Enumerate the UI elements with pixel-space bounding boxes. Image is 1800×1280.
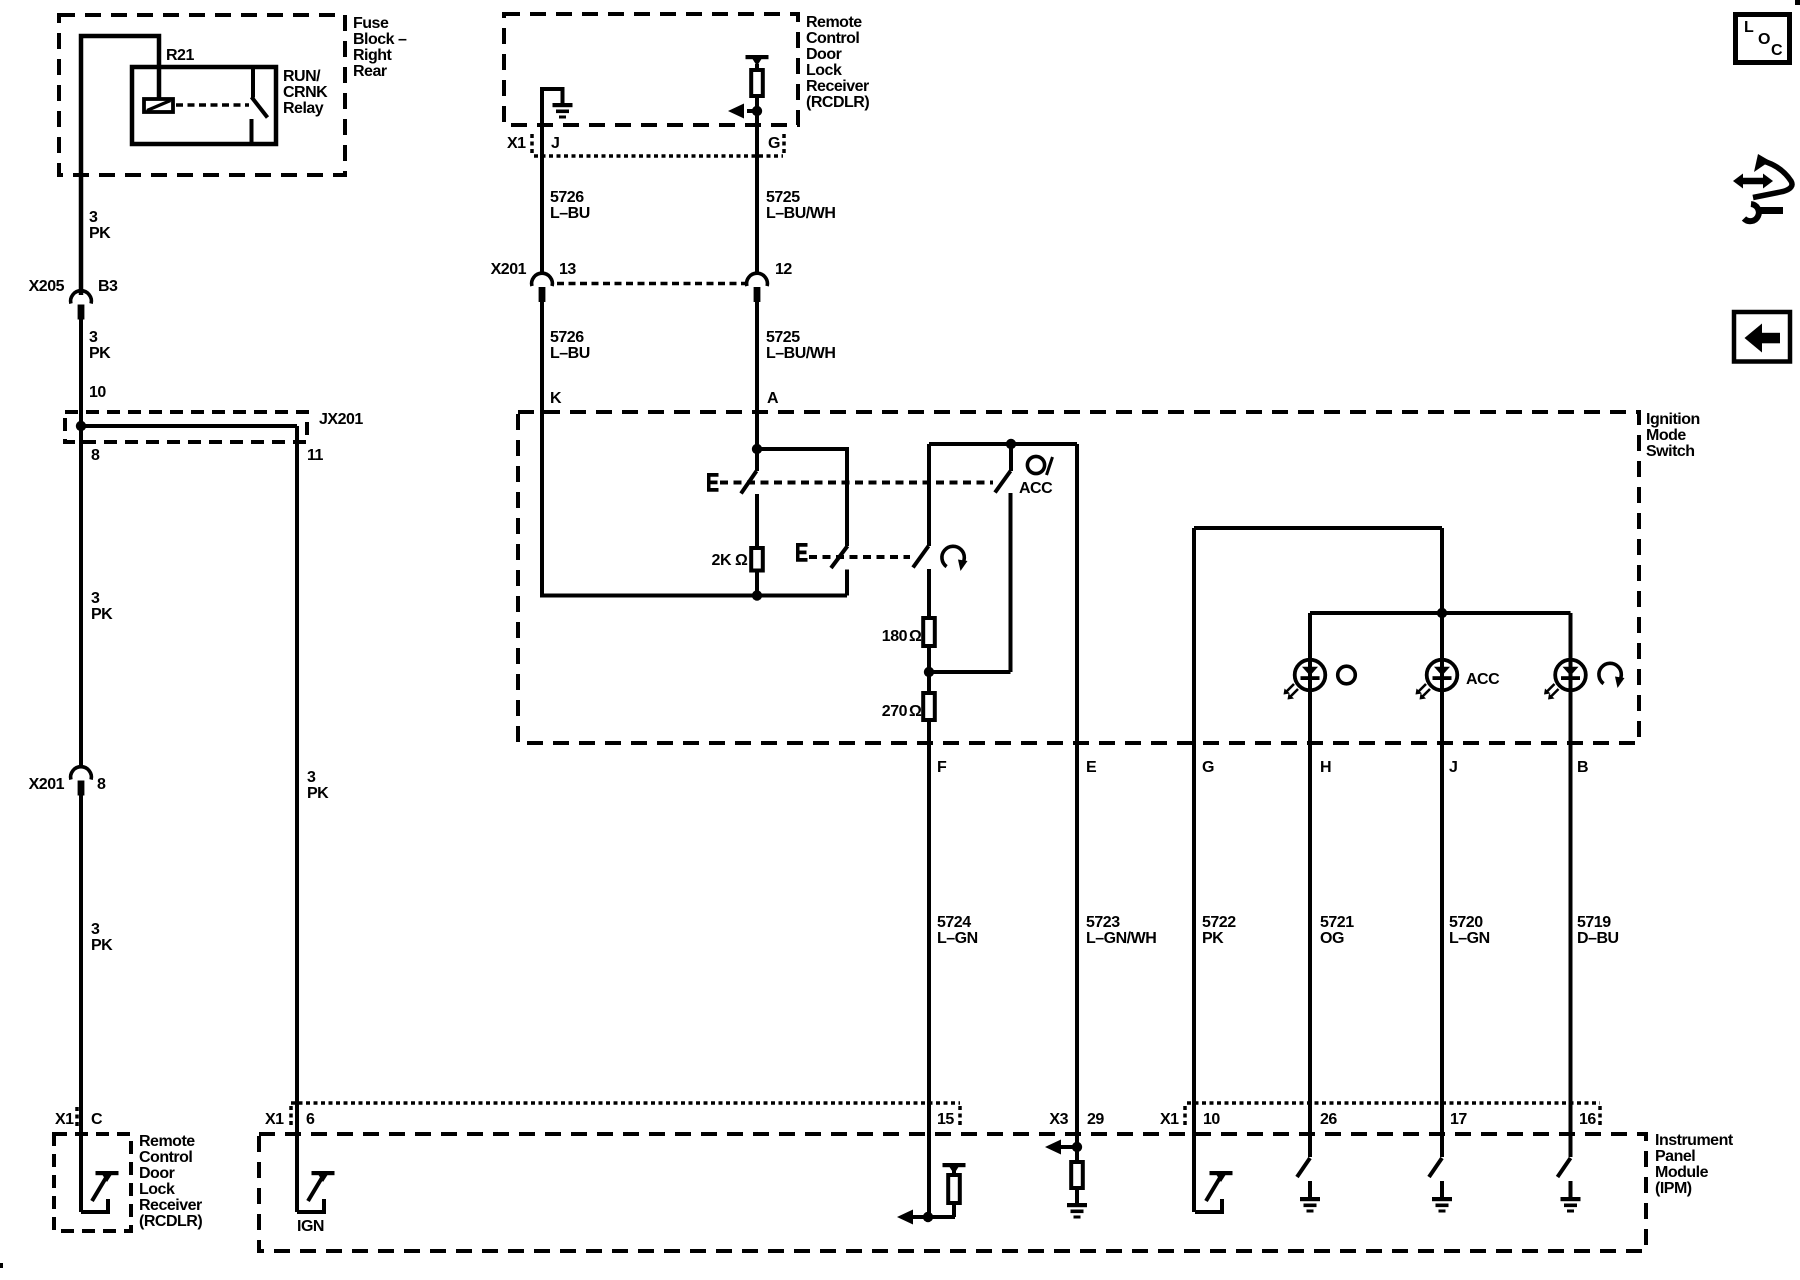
svg-text:X201: X201 [491, 261, 527, 278]
svg-text:5725: 5725 [766, 329, 800, 346]
svg-text:5721: 5721 [1320, 914, 1354, 931]
svg-text:270: 270 [882, 703, 908, 720]
svg-text:C: C [91, 1111, 103, 1128]
svg-text:G: G [1202, 759, 1214, 776]
svg-text:3: 3 [89, 329, 98, 346]
svg-text:Instrument: Instrument [1655, 1132, 1734, 1149]
svg-text:R21: R21 [166, 47, 194, 64]
svg-text:B: B [1577, 759, 1588, 776]
svg-text:L–BU/WH: L–BU/WH [766, 205, 835, 222]
svg-text:X205: X205 [29, 278, 65, 295]
svg-text:L–BU: L–BU [550, 345, 590, 362]
svg-text:ACC: ACC [1466, 671, 1500, 688]
svg-text:L: L [1744, 19, 1754, 36]
svg-text:PK: PK [91, 606, 113, 623]
svg-text:PK: PK [89, 225, 111, 242]
svg-text:B3: B3 [98, 278, 118, 295]
svg-text:5726: 5726 [550, 329, 584, 346]
svg-text:Mode: Mode [1646, 427, 1686, 444]
svg-text:X3: X3 [1049, 1111, 1068, 1128]
svg-text:PK: PK [91, 937, 113, 954]
svg-text:H: H [1320, 759, 1331, 776]
svg-text:X1: X1 [1160, 1111, 1179, 1128]
svg-text:(RCDLR): (RCDLR) [139, 1213, 202, 1230]
svg-text:Switch: Switch [1646, 443, 1695, 460]
svg-text:PK: PK [307, 785, 329, 802]
svg-text:Lock: Lock [806, 62, 842, 79]
svg-text:JX201: JX201 [319, 411, 363, 428]
svg-text:Ω: Ω [909, 628, 922, 645]
svg-text:X1: X1 [507, 135, 526, 152]
svg-text:Block –: Block – [353, 31, 407, 48]
svg-text:J: J [1449, 759, 1457, 776]
svg-text:D–BU: D–BU [1577, 930, 1619, 947]
svg-text:Control: Control [139, 1149, 192, 1166]
svg-text:CRNK: CRNK [283, 84, 328, 101]
svg-text:G: G [768, 135, 780, 152]
svg-text:10: 10 [89, 384, 106, 401]
svg-text:ACC: ACC [1019, 480, 1053, 497]
svg-text:5723: 5723 [1086, 914, 1120, 931]
svg-text:Relay: Relay [283, 100, 324, 117]
svg-text:K: K [550, 390, 562, 407]
svg-text:Receiver: Receiver [139, 1197, 202, 1214]
svg-text:Door: Door [139, 1165, 175, 1182]
svg-text:PK: PK [89, 345, 111, 362]
svg-text:17: 17 [1450, 1111, 1467, 1128]
svg-text:OG: OG [1320, 930, 1344, 947]
svg-text:5726: 5726 [550, 189, 584, 206]
svg-text:6: 6 [306, 1111, 315, 1128]
svg-text:3: 3 [307, 769, 316, 786]
svg-text:IGN: IGN [297, 1218, 324, 1235]
svg-text:F: F [937, 759, 947, 776]
svg-text:Door: Door [806, 46, 842, 63]
svg-text:16: 16 [1579, 1111, 1596, 1128]
svg-text:13: 13 [559, 261, 576, 278]
svg-text:L–GN: L–GN [937, 930, 978, 947]
svg-text:5725: 5725 [766, 189, 800, 206]
svg-text:Control: Control [806, 30, 859, 47]
svg-text:Receiver: Receiver [806, 78, 869, 95]
svg-text:Ignition: Ignition [1646, 411, 1700, 428]
svg-text:(RCDLR): (RCDLR) [806, 94, 869, 111]
svg-text:5724: 5724 [937, 914, 971, 931]
svg-text:12: 12 [775, 261, 792, 278]
svg-text:(IPM): (IPM) [1655, 1180, 1692, 1197]
svg-text:X1: X1 [265, 1111, 284, 1128]
svg-text:3: 3 [89, 209, 98, 226]
svg-text:8: 8 [97, 776, 106, 793]
svg-text:Lock: Lock [139, 1181, 175, 1198]
svg-text:Ω: Ω [735, 552, 748, 569]
svg-text:X1: X1 [55, 1111, 74, 1128]
svg-text:A: A [767, 390, 779, 407]
svg-text:10: 10 [1203, 1111, 1220, 1128]
svg-text:Ω: Ω [909, 703, 922, 720]
svg-text:RUN/: RUN/ [283, 68, 321, 85]
svg-text:11: 11 [307, 447, 324, 464]
svg-text:X201: X201 [29, 776, 65, 793]
svg-text:L–BU: L–BU [550, 205, 590, 222]
svg-text:5720: 5720 [1449, 914, 1483, 931]
svg-text:O: O [1758, 31, 1770, 48]
svg-text:2K: 2K [712, 552, 732, 569]
svg-text:Right: Right [353, 47, 393, 64]
svg-text:PK: PK [1202, 930, 1224, 947]
svg-text:Rear: Rear [353, 63, 387, 80]
svg-text:5722: 5722 [1202, 914, 1236, 931]
svg-text:Remote: Remote [806, 14, 862, 31]
svg-text:Module: Module [1655, 1164, 1709, 1181]
svg-text:Remote: Remote [139, 1133, 195, 1150]
svg-text:15: 15 [937, 1111, 954, 1128]
svg-text:L–BU/WH: L–BU/WH [766, 345, 835, 362]
svg-text:29: 29 [1087, 1111, 1104, 1128]
svg-text:5719: 5719 [1577, 914, 1611, 931]
svg-text:180: 180 [882, 628, 908, 645]
svg-text:3: 3 [91, 921, 100, 938]
svg-text:C: C [1771, 42, 1783, 59]
svg-text:Panel: Panel [1655, 1148, 1695, 1165]
svg-text:J: J [551, 135, 559, 152]
svg-text:E: E [1086, 759, 1097, 776]
svg-text:26: 26 [1320, 1111, 1337, 1128]
svg-text:Fuse: Fuse [353, 15, 389, 32]
svg-text:3: 3 [91, 590, 100, 607]
svg-text:L–GN/WH: L–GN/WH [1086, 930, 1156, 947]
svg-text:L–GN: L–GN [1449, 930, 1490, 947]
svg-text:8: 8 [91, 447, 100, 464]
